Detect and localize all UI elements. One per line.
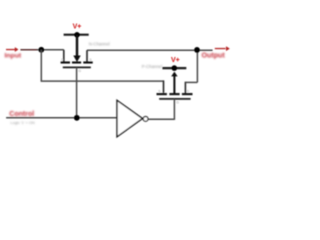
svg-text:V+: V+ xyxy=(73,24,82,31)
svg-text:G: G xyxy=(78,69,81,73)
transistor M2 P-channel: drain stub xyxy=(184,82,186,94)
wire: inverter output to P-channel gate xyxy=(148,118,174,120)
transistor M1 N-channel: drain stub xyxy=(63,50,65,62)
node: input junction dot xyxy=(38,47,44,53)
wire: drain horizontal to output vertical xyxy=(185,81,197,83)
wire: P-channel left stub down to source pad xyxy=(163,80,165,92)
wire: input rail from arrow to N-channel drain stub corner xyxy=(20,49,38,51)
node: dot on P-channel V+ bar xyxy=(172,65,178,71)
transistor M1 N-channel: source stub xyxy=(86,50,88,61)
transistor M1 N-channel: gate bar xyxy=(63,66,91,68)
svg-text:Input: Input xyxy=(5,53,22,60)
node: output junction dot xyxy=(194,47,200,53)
transistor M2 P-channel: gate bar xyxy=(159,98,190,100)
P-channel body wire with up arrow toward V+ xyxy=(171,72,177,94)
input arrow (red) xyxy=(6,47,19,52)
N-channel body wire with down arrow into channel xyxy=(73,35,80,62)
wire: vertical up to P-channel gate bar xyxy=(173,99,175,120)
svg-text:Logic '1' = ON: Logic '1' = ON xyxy=(10,120,34,125)
transistor M1 N-channel: channel pads xyxy=(61,61,93,63)
wire: control line xyxy=(6,117,116,119)
svg-text:N-Channel: N-Channel xyxy=(89,42,110,47)
power rail bar V+ (P-channel body) xyxy=(162,67,186,69)
wire: input branch down from junction xyxy=(40,50,42,81)
svg-text:P-Channel: P-Channel xyxy=(142,64,163,69)
wire: output vertical up to rail xyxy=(196,50,198,83)
power rail bar V+ (N-channel body) xyxy=(64,34,89,36)
inverter U1 bubble xyxy=(143,117,148,122)
inverter U1 triangle xyxy=(117,100,143,137)
node: control junction dot xyxy=(74,115,80,121)
transistor M2 P-channel: channel pads xyxy=(157,93,193,95)
svg-text:G: G xyxy=(176,101,179,105)
svg-text:V+: V+ xyxy=(171,57,180,64)
tiny pin labels S / D / G of P-channel xyxy=(158,90,189,105)
wire: input branch horizontal to P-channel source xyxy=(41,80,164,82)
wire: N-channel gate lead down to control line xyxy=(76,67,78,117)
tiny pin labels D / S / G of N-channel xyxy=(61,58,92,73)
output arrow (red) xyxy=(215,46,230,51)
node: dot on V+ bar xyxy=(74,32,80,38)
wire: rail from N-channel source stub to output arrow xyxy=(87,49,213,51)
svg-text:Output: Output xyxy=(202,52,226,60)
svg-text:Control: Control xyxy=(9,111,34,118)
